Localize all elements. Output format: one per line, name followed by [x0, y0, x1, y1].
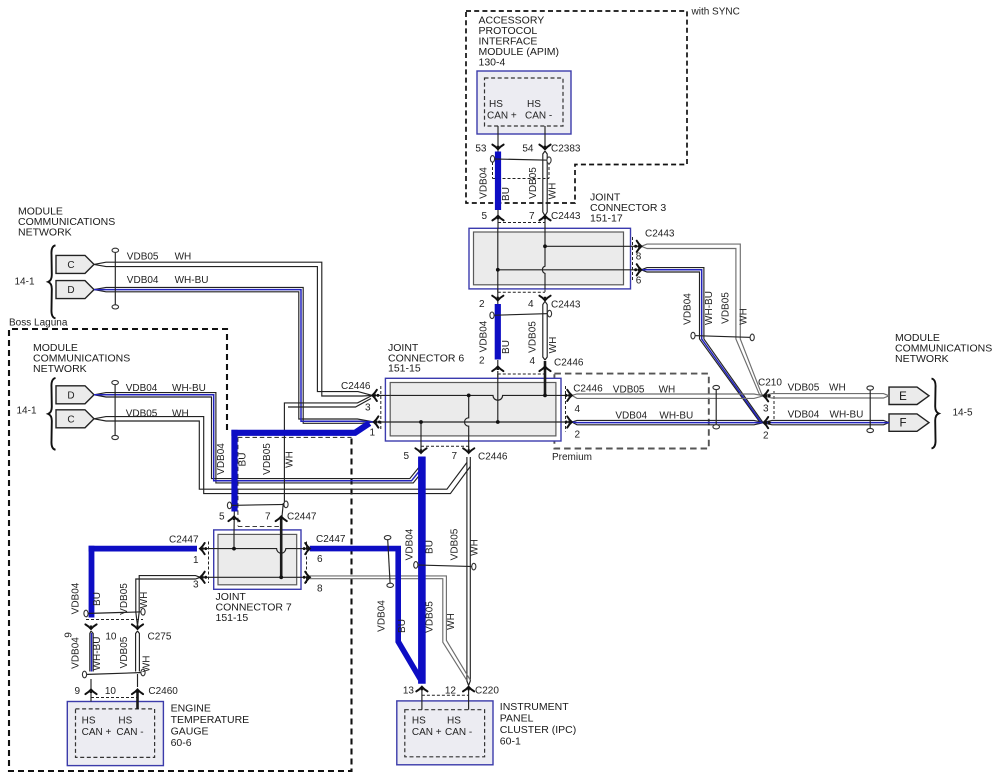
svg-text:VDB05: VDB05: [450, 528, 461, 560]
svg-text:C2447: C2447: [316, 534, 346, 545]
svg-text:HS: HS: [412, 716, 426, 727]
svg-text:3: 3: [763, 404, 769, 415]
svg-text:PANEL: PANEL: [500, 713, 534, 725]
svg-text:3: 3: [365, 403, 371, 414]
svg-text:VDB05: VDB05: [119, 636, 130, 668]
svg-text:7: 7: [529, 211, 535, 222]
svg-text:14-1: 14-1: [15, 277, 35, 288]
svg-text:HS: HS: [447, 716, 461, 727]
svg-text:2: 2: [479, 356, 485, 367]
svg-text:3: 3: [193, 580, 199, 591]
svg-text:C2443: C2443: [551, 299, 581, 310]
svg-text:VDB04: VDB04: [404, 528, 415, 560]
svg-text:CAN -: CAN -: [525, 110, 552, 121]
svg-text:7: 7: [451, 451, 457, 462]
svg-text:C2460: C2460: [148, 686, 178, 697]
svg-text:WH: WH: [139, 592, 150, 609]
svg-text:ENGINE: ENGINE: [171, 703, 211, 715]
svg-text:TEMPERATURE: TEMPERATURE: [171, 714, 250, 726]
svg-text:C2446: C2446: [554, 358, 584, 369]
svg-text:13: 13: [403, 686, 415, 697]
svg-text:BU: BU: [397, 619, 408, 633]
svg-text:with SYNC: with SYNC: [691, 7, 740, 18]
svg-text:WH: WH: [548, 337, 559, 354]
svg-text:C210: C210: [758, 378, 782, 389]
svg-text:BU: BU: [425, 540, 436, 554]
svg-text:VDB05: VDB05: [127, 251, 159, 262]
svg-text:4: 4: [529, 356, 535, 367]
svg-text:CLUSTER (IPC): CLUSTER (IPC): [500, 724, 576, 736]
svg-text:6: 6: [636, 276, 642, 287]
svg-text:BU: BU: [501, 340, 512, 354]
svg-text:WH: WH: [285, 451, 296, 468]
svg-text:VDB04: VDB04: [126, 383, 158, 394]
svg-text:WH: WH: [739, 308, 750, 325]
svg-text:BU: BU: [237, 453, 248, 467]
svg-text:WH-BU: WH-BU: [830, 410, 864, 421]
svg-text:VDB05: VDB05: [126, 409, 158, 420]
svg-text:12: 12: [445, 686, 457, 697]
svg-text:C220: C220: [475, 686, 499, 697]
svg-text:NETWORK: NETWORK: [18, 227, 72, 239]
svg-text:WH-BU: WH-BU: [175, 275, 209, 286]
svg-text:9: 9: [64, 632, 75, 638]
svg-text:9: 9: [74, 686, 80, 697]
svg-text:VDB05: VDB05: [721, 292, 732, 324]
svg-text:F: F: [899, 418, 906, 430]
svg-text:CAN +: CAN +: [82, 727, 112, 738]
svg-text:WH: WH: [142, 655, 153, 672]
svg-text:10: 10: [105, 686, 117, 697]
svg-text:WH: WH: [829, 382, 846, 393]
svg-text:WH: WH: [172, 409, 189, 420]
svg-text:VDB04: VDB04: [71, 582, 82, 614]
svg-text:151-15: 151-15: [388, 363, 421, 375]
svg-text:6: 6: [317, 554, 323, 565]
svg-text:4: 4: [574, 404, 580, 415]
svg-text:C2443: C2443: [551, 211, 581, 222]
svg-text:WH: WH: [469, 539, 480, 556]
svg-text:VDB04: VDB04: [615, 410, 647, 421]
svg-text:VDB05: VDB05: [613, 384, 645, 395]
svg-text:VDB05: VDB05: [119, 583, 130, 615]
svg-text:D: D: [67, 285, 74, 296]
svg-text:Boss Laguna: Boss Laguna: [9, 318, 68, 329]
svg-text:2: 2: [763, 430, 769, 441]
svg-text:4: 4: [528, 299, 534, 310]
svg-text:NETWORK: NETWORK: [33, 363, 87, 375]
svg-text:7: 7: [265, 512, 271, 523]
svg-text:HS: HS: [489, 99, 503, 110]
svg-text:5: 5: [481, 211, 487, 222]
svg-text:151-17: 151-17: [590, 212, 623, 224]
svg-text:60-1: 60-1: [500, 736, 521, 748]
svg-text:C275: C275: [148, 632, 172, 643]
svg-text:VDB04: VDB04: [127, 275, 159, 286]
svg-text:CAN +: CAN +: [487, 110, 517, 121]
svg-text:WH-BU: WH-BU: [92, 637, 103, 671]
svg-text:5: 5: [219, 512, 225, 523]
svg-text:BU: BU: [92, 592, 103, 606]
svg-text:HS: HS: [82, 716, 96, 727]
svg-text:C2447: C2447: [169, 535, 199, 546]
svg-text:BU: BU: [501, 187, 512, 201]
svg-text:INSTRUMENT: INSTRUMENT: [500, 701, 569, 713]
svg-text:CAN -: CAN -: [445, 727, 472, 738]
svg-text:VDB05: VDB05: [262, 443, 273, 475]
svg-text:5: 5: [403, 451, 409, 462]
svg-text:VDB04: VDB04: [683, 293, 694, 325]
svg-text:C: C: [67, 260, 74, 271]
svg-text:C2446: C2446: [341, 381, 371, 392]
svg-text:Premium: Premium: [552, 452, 592, 463]
svg-text:C2383: C2383: [551, 144, 581, 155]
svg-text:VDB05: VDB05: [528, 321, 539, 353]
svg-text:130-4: 130-4: [479, 57, 506, 69]
svg-text:WH: WH: [659, 384, 676, 395]
svg-text:C2447: C2447: [287, 512, 317, 523]
svg-text:10: 10: [105, 632, 117, 643]
svg-text:WH: WH: [548, 183, 559, 200]
svg-text:HS: HS: [118, 716, 132, 727]
svg-text:VDB04: VDB04: [216, 443, 227, 475]
svg-text:8: 8: [317, 584, 323, 595]
svg-text:GAUGE: GAUGE: [171, 726, 209, 738]
svg-text:WH-BU: WH-BU: [659, 410, 693, 421]
svg-text:VDB05: VDB05: [424, 601, 435, 633]
svg-text:1: 1: [193, 555, 199, 566]
svg-text:WH: WH: [175, 251, 192, 262]
svg-text:151-15: 151-15: [216, 612, 249, 624]
svg-text:VDB04: VDB04: [788, 410, 820, 421]
svg-text:WH: WH: [446, 613, 457, 630]
svg-text:VDB04: VDB04: [479, 320, 490, 352]
svg-text:C2446: C2446: [573, 384, 603, 395]
svg-text:1: 1: [369, 428, 375, 439]
svg-text:VDB04: VDB04: [71, 637, 82, 669]
svg-text:53: 53: [475, 144, 487, 155]
svg-text:NETWORK: NETWORK: [895, 353, 949, 365]
svg-text:C2446: C2446: [478, 451, 508, 462]
svg-text:VDB05: VDB05: [788, 382, 820, 393]
svg-text:VDB04: VDB04: [376, 600, 387, 632]
svg-text:E: E: [899, 391, 907, 403]
svg-text:WH-BU: WH-BU: [172, 383, 206, 394]
svg-text:2: 2: [574, 430, 580, 441]
svg-text:CAN -: CAN -: [116, 727, 143, 738]
svg-text:54: 54: [522, 144, 534, 155]
svg-text:60-6: 60-6: [171, 737, 192, 749]
svg-text:C2443: C2443: [645, 229, 675, 240]
svg-text:CAN +: CAN +: [412, 727, 442, 738]
svg-text:C: C: [67, 414, 74, 425]
svg-text:D: D: [67, 390, 74, 401]
svg-text:WH-BU: WH-BU: [704, 291, 715, 325]
svg-text:HS: HS: [527, 99, 541, 110]
svg-text:VDB04: VDB04: [479, 167, 490, 199]
svg-text:14-5: 14-5: [953, 408, 973, 419]
svg-text:8: 8: [636, 252, 642, 263]
svg-text:2: 2: [479, 299, 485, 310]
svg-text:VDB05: VDB05: [528, 167, 539, 199]
svg-text:14-1: 14-1: [17, 406, 37, 417]
